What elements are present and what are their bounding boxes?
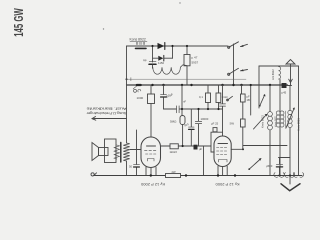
svg-text:µ 47: µ 47 bbox=[192, 56, 198, 60]
svg-text:1kΩ/2: 1kΩ/2 bbox=[170, 150, 178, 154]
svg-text:Ky 12 P 2000: Ky 12 P 2000 bbox=[140, 182, 165, 187]
svg-text:Kreis 8922: Kreis 8922 bbox=[261, 115, 265, 128]
svg-text:5957: 5957 bbox=[192, 61, 199, 65]
svg-text:nF: nF bbox=[183, 100, 186, 104]
svg-text:145 GW: 145 GW bbox=[12, 8, 26, 37]
svg-text:Ant 8922: Ant 8922 bbox=[271, 69, 275, 80]
svg-text:Ky 12 P 2000: Ky 12 P 2000 bbox=[215, 182, 240, 187]
svg-text:µF: µF bbox=[199, 147, 203, 151]
svg-text:Kons 8922: Kons 8922 bbox=[130, 38, 146, 42]
svg-text:50: 50 bbox=[129, 165, 133, 169]
svg-text:µF: µF bbox=[247, 95, 251, 99]
svg-text:µ500: µ500 bbox=[266, 164, 273, 168]
svg-text:0,1: 0,1 bbox=[199, 95, 203, 99]
svg-text:10000: 10000 bbox=[201, 117, 209, 121]
svg-text:Ausg.Ü.Freischwinger: Ausg.Ü.Freischwinger bbox=[86, 111, 127, 115]
svg-text:Ausf. Bandkante: Ausf. Bandkante bbox=[87, 106, 127, 110]
svg-text:µF 25: µF 25 bbox=[211, 122, 219, 126]
svg-text:1000: 1000 bbox=[137, 96, 144, 100]
svg-text:SW: SW bbox=[230, 122, 235, 126]
svg-text:1B: 1B bbox=[247, 98, 250, 102]
svg-text:1150: 1150 bbox=[158, 61, 164, 65]
svg-text:µ45: µ45 bbox=[282, 91, 287, 95]
svg-text:5MΩ: 5MΩ bbox=[170, 120, 177, 124]
